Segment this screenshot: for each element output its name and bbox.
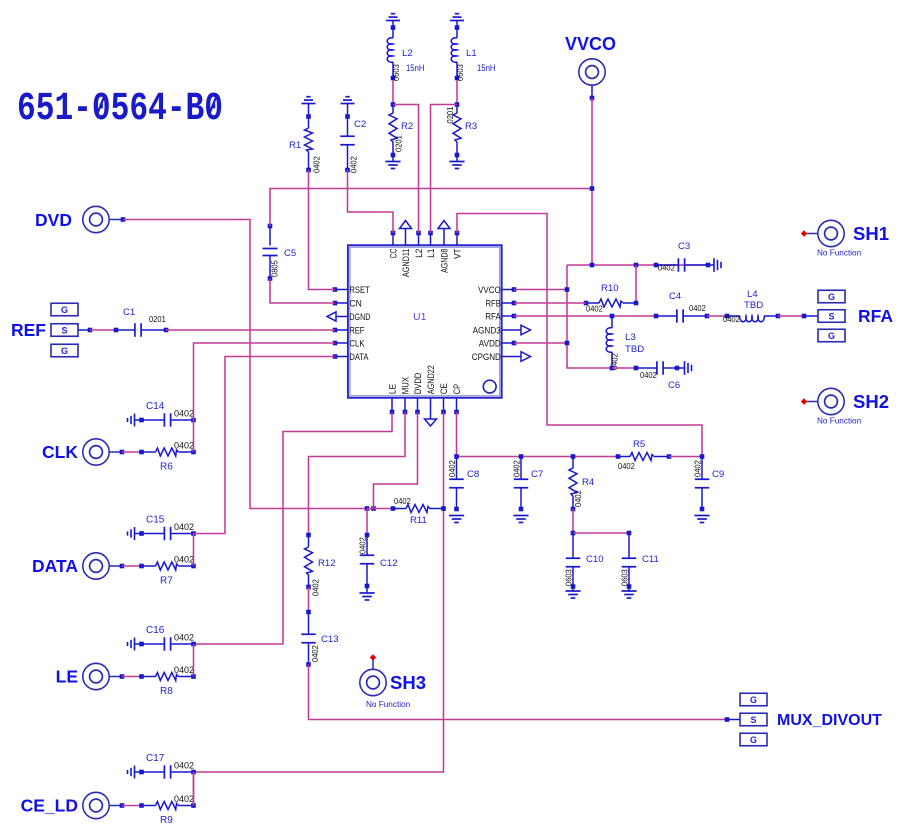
svg-text:0402: 0402	[723, 314, 740, 324]
resistor R6	[139, 441, 196, 473]
connector REF	[11, 303, 92, 357]
svg-text:S: S	[61, 325, 67, 335]
svg-text:DGND: DGND	[349, 311, 370, 322]
svg-text:DATA: DATA	[349, 351, 369, 362]
wire DVD	[123, 220, 367, 509]
wire	[635, 265, 637, 303]
svg-text:0402: 0402	[658, 263, 675, 273]
wire	[90, 329, 116, 331]
resistor R2	[389, 105, 413, 162]
wire	[122, 451, 142, 453]
svg-text:TBD: TBD	[625, 344, 644, 355]
pin CN	[333, 297, 362, 308]
pin VT	[451, 231, 462, 259]
wire	[193, 644, 195, 677]
svg-text:No Function: No Function	[366, 700, 411, 709]
inductor L2	[387, 25, 424, 81]
svg-text:0603: 0603	[564, 569, 574, 586]
svg-text:C9: C9	[712, 469, 724, 480]
svg-text:C1: C1	[123, 307, 135, 318]
svg-text:0402: 0402	[174, 555, 194, 565]
pin DVDD	[412, 373, 423, 415]
svg-text:15nH: 15nH	[406, 63, 425, 74]
svg-text:C3: C3	[678, 241, 690, 252]
node L2/R2	[391, 102, 396, 107]
svg-text:0402: 0402	[174, 441, 194, 451]
resistor R10	[584, 283, 639, 314]
connector LE	[56, 663, 125, 689]
capacitor C1	[114, 307, 169, 337]
connector SH1	[801, 220, 889, 257]
svg-text:C2: C2	[354, 119, 366, 130]
svg-text:RFB: RFB	[486, 297, 501, 308]
wire CP	[456, 412, 458, 457]
svg-text:R8: R8	[160, 686, 173, 697]
capacitor C7	[512, 454, 544, 511]
node	[454, 454, 459, 459]
svg-text:AGND3: AGND3	[473, 324, 501, 335]
capacitor C11	[620, 533, 659, 591]
svg-text:R1: R1	[289, 140, 301, 151]
wire CC	[348, 170, 394, 233]
svg-text:CE: CE	[438, 383, 449, 394]
svg-text:C4: C4	[669, 291, 682, 302]
svg-text:0402: 0402	[512, 460, 522, 477]
wire	[122, 805, 142, 807]
connector RFA	[818, 290, 893, 342]
wire	[669, 456, 702, 458]
wire VVCO pin	[514, 287, 569, 292]
svg-text:G: G	[61, 305, 68, 315]
ground	[359, 593, 374, 600]
pin VVCO	[478, 284, 516, 295]
svg-text:SH1: SH1	[853, 223, 889, 244]
pin DATA	[333, 351, 369, 362]
resistor R5	[616, 439, 672, 471]
wire	[591, 98, 593, 265]
svg-text:0603: 0603	[620, 569, 630, 586]
svg-text:0402: 0402	[174, 761, 194, 771]
pin CLK	[333, 337, 366, 348]
wire	[367, 508, 393, 510]
svg-text:No Function: No Function	[817, 249, 862, 258]
svg-text:0402: 0402	[174, 665, 194, 675]
connector SH2	[801, 388, 889, 425]
svg-text:S: S	[828, 311, 834, 321]
svg-text:R10: R10	[601, 283, 619, 294]
pin AGND3	[473, 324, 531, 335]
wire	[573, 531, 631, 536]
svg-text:L3: L3	[625, 332, 636, 343]
svg-text:AGND8: AGND8	[438, 249, 449, 273]
capacitor C2	[340, 114, 366, 173]
wire VVCO top	[270, 189, 592, 227]
svg-text:VVCO: VVCO	[565, 34, 616, 54]
wire	[392, 80, 394, 105]
ground	[385, 162, 400, 169]
wire	[122, 676, 142, 678]
wire	[193, 772, 195, 806]
ground	[302, 97, 316, 117]
pin CPGND	[472, 351, 531, 362]
capacitor C13	[301, 612, 338, 667]
ground	[677, 361, 692, 375]
node L1/R3	[455, 102, 460, 107]
wire MUX	[309, 412, 406, 535]
node	[634, 263, 639, 268]
wire RFB	[514, 302, 586, 304]
pin L1	[425, 231, 436, 258]
svg-text:C10: C10	[586, 554, 604, 565]
wire	[193, 420, 195, 452]
svg-text:REF: REF	[349, 324, 364, 335]
wire	[456, 80, 458, 105]
ground	[449, 162, 464, 169]
svg-text:VVCO: VVCO	[478, 284, 501, 295]
capacitor C6	[612, 361, 680, 391]
connector SH3	[360, 654, 426, 709]
svg-text:G: G	[750, 695, 757, 705]
wire	[567, 265, 612, 368]
svg-text:0402: 0402	[312, 156, 322, 173]
svg-text:No Function: No Function	[817, 417, 862, 426]
wire VT	[457, 214, 702, 457]
node R1	[306, 168, 311, 173]
capacitor C4	[654, 291, 710, 323]
svg-text:C14: C14	[146, 401, 165, 412]
pin AGND22	[425, 365, 437, 426]
svg-text:DVDD: DVDD	[412, 373, 423, 395]
wire	[457, 456, 619, 458]
svg-text:C5: C5	[284, 248, 296, 259]
svg-text:AGND11: AGND11	[400, 249, 411, 278]
svg-text:G: G	[750, 735, 757, 745]
capacitor C9	[693, 457, 725, 512]
wire LE	[194, 412, 393, 644]
IC U1	[348, 245, 502, 398]
pin AGND11	[400, 221, 412, 278]
pin AGND8	[438, 221, 450, 273]
capacitor C5	[263, 224, 297, 279]
svg-text:R5: R5	[633, 439, 645, 450]
svg-text:0402: 0402	[618, 461, 635, 471]
ground	[341, 97, 355, 117]
svg-text:0402: 0402	[311, 579, 321, 596]
connector DVD	[35, 206, 125, 232]
wire CLK	[194, 343, 336, 420]
svg-text:TBD: TBD	[744, 300, 763, 311]
svg-text:0603: 0603	[455, 64, 465, 81]
resistor R3	[445, 105, 477, 162]
ground	[128, 527, 142, 540]
svg-text:RSET: RSET	[349, 284, 370, 295]
svg-text:R12: R12	[318, 558, 336, 569]
wire CE	[194, 412, 444, 772]
svg-text:C11: C11	[642, 554, 659, 565]
node C12 top	[365, 506, 370, 511]
svg-text:0402: 0402	[174, 409, 194, 419]
wire	[193, 772, 195, 806]
svg-text:R11: R11	[410, 515, 427, 526]
svg-text:0402: 0402	[447, 460, 457, 477]
inductor L3	[606, 316, 644, 370]
svg-text:LE: LE	[386, 384, 397, 394]
resistor R7	[139, 555, 196, 587]
svg-text:0402: 0402	[573, 490, 583, 507]
svg-text:R2: R2	[401, 121, 413, 132]
node	[590, 186, 595, 191]
capacitor C15	[139, 515, 196, 541]
pin L2	[413, 231, 424, 258]
svg-text:15nH: 15nH	[477, 63, 496, 74]
svg-text:C6: C6	[668, 380, 680, 391]
wire	[431, 105, 458, 234]
pin RFA	[485, 310, 516, 321]
svg-text:0805: 0805	[270, 260, 280, 277]
wire RFA	[514, 314, 656, 319]
connector MUX_DIVOUT	[740, 693, 882, 746]
svg-text:L1: L1	[425, 249, 436, 258]
title text 651-0564-B0	[17, 87, 223, 132]
wire	[306, 587, 311, 614]
svg-text:CLK: CLK	[42, 442, 78, 462]
svg-text:651-0564-B0: 651-0564-B0	[17, 87, 223, 132]
wire RSET	[309, 170, 336, 290]
wire	[393, 105, 419, 234]
node L3	[610, 366, 615, 371]
svg-text:DATA: DATA	[32, 556, 78, 576]
svg-text:0402: 0402	[689, 303, 706, 313]
node CE/R11	[441, 506, 446, 511]
svg-text:AVDD: AVDD	[479, 337, 501, 348]
svg-text:L2: L2	[402, 48, 413, 59]
wire REF	[166, 329, 335, 331]
node C2	[345, 168, 350, 173]
resistor R4	[569, 454, 595, 511]
ground	[513, 516, 528, 523]
svg-text:G: G	[828, 331, 835, 341]
svg-text:0201: 0201	[445, 107, 455, 124]
node C9	[700, 454, 705, 459]
pin RFB	[486, 297, 517, 308]
svg-text:0402: 0402	[586, 304, 603, 314]
svg-text:G: G	[828, 292, 835, 302]
inductor L4	[723, 289, 780, 324]
inductor L1	[451, 25, 495, 81]
wire R4 bottom	[571, 509, 576, 535]
node	[590, 263, 595, 268]
pin AVDD	[479, 337, 517, 348]
svg-text:SH2: SH2	[853, 391, 889, 412]
svg-text:G: G	[61, 346, 68, 356]
ground	[386, 14, 400, 33]
connector DATA	[32, 553, 124, 579]
pin RSET	[333, 284, 370, 295]
resistor R8	[139, 665, 196, 697]
connector VVCO	[565, 34, 616, 100]
svg-text:C12: C12	[380, 558, 398, 569]
svg-text:RFA: RFA	[858, 306, 893, 326]
svg-text:L4: L4	[747, 289, 758, 300]
svg-text:AGND22: AGND22	[425, 365, 436, 394]
svg-text:CC: CC	[387, 248, 398, 258]
pin DGND	[327, 311, 371, 322]
svg-text:0402: 0402	[394, 496, 411, 506]
wire	[707, 315, 727, 317]
wire DVDD	[374, 412, 418, 509]
svg-text:0603: 0603	[391, 64, 401, 81]
capacitor C3	[654, 241, 711, 273]
resistor R9	[139, 794, 196, 826]
pin REF	[333, 324, 365, 335]
svg-text:C17: C17	[146, 753, 165, 764]
svg-text:SH3: SH3	[390, 672, 426, 693]
svg-text:U1: U1	[413, 311, 427, 323]
capacitor C14	[139, 401, 196, 427]
svg-text:RFA: RFA	[485, 310, 501, 321]
ground	[128, 414, 142, 427]
capacitor C16	[139, 625, 196, 651]
svg-text:0402: 0402	[349, 156, 359, 173]
resistor R12	[305, 533, 336, 596]
svg-text:R7: R7	[160, 576, 173, 587]
capacitor C17	[139, 753, 196, 779]
svg-text:LE: LE	[56, 667, 78, 687]
svg-text:C13: C13	[321, 634, 339, 645]
pin LE	[386, 384, 397, 414]
pin CC	[387, 231, 398, 259]
resistor R11	[391, 496, 444, 526]
node	[725, 717, 740, 722]
wire	[122, 565, 142, 567]
pin MUX	[399, 376, 410, 414]
node C5	[268, 276, 273, 281]
pin CP	[451, 384, 462, 414]
svg-text:CE_LD: CE_LD	[21, 796, 78, 816]
svg-text:CLK: CLK	[349, 337, 365, 348]
ground	[128, 766, 142, 779]
svg-text:DVD: DVD	[35, 210, 72, 230]
wire AVDD pin	[514, 341, 569, 346]
wire	[778, 314, 818, 319]
svg-text:C8: C8	[467, 469, 479, 480]
svg-text:0402: 0402	[174, 522, 194, 532]
svg-text:0402: 0402	[358, 537, 368, 554]
wire	[567, 264, 709, 266]
node DVDD	[371, 506, 376, 511]
svg-text:REF: REF	[11, 320, 46, 340]
resistor R1	[289, 114, 322, 173]
svg-text:R9: R9	[160, 815, 173, 826]
svg-text:0201: 0201	[149, 314, 166, 324]
svg-text:R3: R3	[465, 121, 477, 132]
svg-text:L1: L1	[466, 48, 477, 59]
svg-text:0402: 0402	[310, 645, 320, 662]
svg-text:MUX: MUX	[399, 376, 410, 394]
ground	[694, 516, 709, 523]
ground	[449, 516, 464, 523]
svg-text:L2: L2	[413, 249, 424, 258]
capacitor C10	[564, 533, 604, 591]
capacitor C12	[358, 509, 398, 594]
svg-text:R6: R6	[160, 462, 173, 473]
svg-text:0402: 0402	[640, 370, 657, 380]
svg-text:C7: C7	[531, 469, 543, 480]
connector CLK	[42, 439, 124, 465]
ground	[128, 638, 142, 651]
svg-text:0402: 0402	[174, 794, 194, 804]
ground	[708, 258, 721, 272]
ground	[565, 591, 580, 598]
svg-text:VT: VT	[451, 248, 462, 259]
svg-text:C16: C16	[146, 625, 165, 636]
svg-text:S: S	[750, 715, 756, 725]
wire DATA	[194, 357, 336, 534]
wire CN	[270, 279, 335, 304]
pin CE	[438, 383, 449, 414]
svg-text:CPGND: CPGND	[472, 351, 501, 362]
capacitor C8	[447, 457, 479, 512]
ground	[450, 14, 464, 33]
wire	[193, 534, 195, 567]
wire MUX_DIVOUT	[309, 665, 728, 720]
svg-text:C15: C15	[146, 515, 165, 526]
svg-text:0201: 0201	[394, 135, 404, 152]
connector CE_LD	[21, 792, 125, 818]
svg-text:MUX_DIVOUT: MUX_DIVOUT	[777, 712, 882, 729]
svg-text:0402: 0402	[174, 633, 194, 643]
svg-text:0402: 0402	[693, 460, 703, 477]
svg-text:CN: CN	[349, 297, 361, 308]
ground	[621, 591, 636, 598]
svg-text:CP: CP	[451, 384, 462, 394]
svg-text:R4: R4	[582, 477, 595, 488]
